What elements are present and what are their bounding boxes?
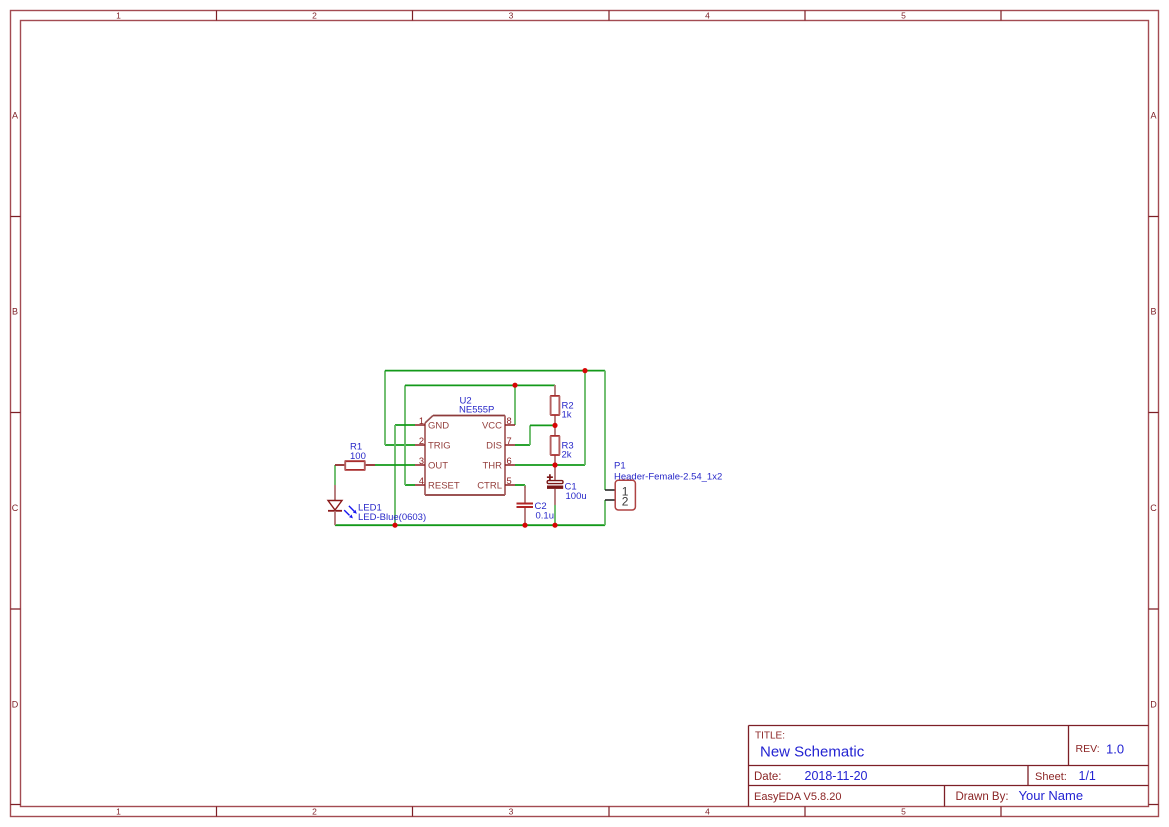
connector P1 Header-Female — [605, 460, 722, 510]
svg-text:C: C — [12, 503, 19, 513]
C2 bottom lead — [524, 508, 526, 525]
junction ground rail / GND pin — [392, 523, 397, 528]
junction VCC rail / VCC pin — [512, 383, 517, 388]
C2 bottom plate — [517, 506, 534, 508]
svg-text:TRIG: TRIG — [428, 441, 451, 452]
svg-text:1/1: 1/1 — [1079, 769, 1096, 783]
svg-text:3: 3 — [509, 11, 514, 21]
wire rail to P1 pin2 vertical — [604, 500, 606, 525]
svg-text:3: 3 — [509, 807, 514, 817]
svg-text:THR: THR — [482, 461, 502, 472]
frame row ticks left — [11, 217, 21, 805]
svg-text:Drawn By:: Drawn By: — [956, 791, 1009, 803]
junction R2 bottom / R3 top / DIS — [552, 423, 557, 428]
U2 body outline — [425, 416, 505, 496]
wire THR horizontal — [515, 464, 585, 466]
svg-text:2018-11-20: 2018-11-20 — [805, 769, 868, 783]
LED1 emission arrow 2 — [344, 510, 349, 515]
svg-text:D: D — [1150, 700, 1157, 710]
LED1 top lead — [334, 485, 336, 501]
frame row ticks right — [1149, 217, 1159, 805]
wire VCC rail horizontal — [405, 384, 555, 386]
C1 top lead — [554, 465, 556, 481]
wire RESET horizontal — [405, 484, 415, 486]
svg-text:Your Name: Your Name — [1019, 788, 1084, 803]
wire RESET riser vertical — [404, 385, 406, 485]
svg-text:D: D — [12, 700, 19, 710]
wire DIS horizontal — [515, 444, 530, 446]
LED1 emission arrow 1 — [349, 506, 354, 511]
P1 body — [615, 480, 635, 510]
svg-text:A: A — [1150, 111, 1156, 121]
op IC U2 NE555P — [415, 396, 515, 496]
R2 body — [551, 396, 559, 414]
wire TRIG horizontal — [385, 444, 415, 446]
frame column labels bottom — [116, 807, 906, 817]
junction ground rail / C1 bottom — [552, 523, 557, 528]
svg-text:Sheet:: Sheet: — [1035, 771, 1067, 783]
wire OUT to R1 horizontal — [375, 464, 415, 466]
svg-text:New Schematic: New Schematic — [760, 744, 865, 761]
svg-text:VCC: VCC — [482, 421, 502, 432]
C1 top plate — [547, 481, 563, 484]
svg-text:2: 2 — [419, 436, 424, 446]
svg-text:4: 4 — [705, 11, 710, 21]
svg-text:1.0: 1.0 — [1106, 742, 1124, 757]
svg-text:4: 4 — [705, 807, 710, 817]
resistor R1 — [335, 441, 375, 470]
svg-text:5: 5 — [901, 11, 906, 21]
svg-text:5: 5 — [901, 807, 906, 817]
R3 body — [551, 436, 559, 454]
svg-text:2: 2 — [312, 807, 317, 817]
wire ground rail horizontal — [335, 524, 605, 526]
svg-text:TITLE:: TITLE: — [755, 731, 785, 742]
junction top rail / THR branch — [582, 368, 587, 373]
svg-text:1: 1 — [116, 11, 121, 21]
svg-text:REV:: REV: — [1076, 743, 1100, 755]
capacitor C1 polarized — [547, 465, 587, 505]
title block grid lines — [749, 726, 1149, 807]
frame row labels left — [12, 111, 19, 710]
svg-text:6: 6 — [507, 456, 512, 466]
svg-text:B: B — [1150, 307, 1156, 317]
wire THR riser vertical — [584, 371, 586, 465]
junction ground rail / C2 bottom — [522, 523, 527, 528]
svg-text:2k: 2k — [562, 450, 572, 461]
svg-text:2: 2 — [312, 11, 317, 21]
wire CTRL to C2 vertical — [524, 485, 526, 488]
wire CTRL horizontal — [515, 484, 525, 486]
P1 pin stubs — [605, 490, 615, 500]
svg-text:5: 5 — [507, 476, 512, 486]
C1 plus sign — [547, 474, 553, 480]
frame column labels top — [116, 11, 906, 21]
R1 leads — [335, 464, 375, 466]
wire VCC pin drop vertical — [514, 385, 516, 425]
LED1 cathode bar — [328, 510, 342, 512]
wire R1 to LED1 vertical — [334, 465, 336, 485]
C1 bottom lead — [554, 489, 556, 505]
frame column ticks top — [217, 11, 1002, 21]
svg-text:EasyEDA V5.8.20: EasyEDA V5.8.20 — [754, 791, 841, 803]
R1 body — [345, 462, 364, 469]
wire C1 bottom to rail vertical — [554, 505, 556, 525]
U2 pin stubs right — [505, 425, 515, 485]
LED1 triangle — [328, 501, 342, 511]
U2 pin stubs left — [415, 425, 425, 485]
svg-text:B: B — [12, 307, 18, 317]
frame column ticks bottom — [217, 807, 1002, 817]
svg-text:0.1u: 0.1u — [536, 511, 555, 522]
svg-text:CTRL: CTRL — [477, 481, 502, 492]
capacitor C2 — [517, 486, 555, 525]
wire GND horizontal — [395, 424, 415, 426]
wire DIS riser vertical — [529, 425, 531, 445]
svg-text:LED-Blue(0603): LED-Blue(0603) — [358, 512, 426, 523]
C2 top lead — [524, 486, 526, 503]
svg-text:C: C — [1150, 503, 1157, 513]
svg-text:7: 7 — [507, 436, 512, 446]
svg-text:P1: P1 — [614, 460, 626, 471]
svg-text:Date:: Date: — [754, 771, 782, 783]
svg-text:100u: 100u — [566, 491, 587, 502]
svg-text:1: 1 — [116, 807, 121, 817]
R3 leads — [554, 425, 556, 465]
wire drop to P1 pin1 vertical — [604, 371, 606, 490]
svg-text:8: 8 — [507, 416, 512, 426]
frame row labels right — [1150, 111, 1157, 710]
wire GND drop vertical — [394, 425, 396, 525]
svg-text:1: 1 — [419, 416, 424, 426]
wire top rail horizontal — [385, 370, 605, 372]
svg-text:OUT: OUT — [428, 461, 448, 472]
LED1 bottom lead — [334, 511, 336, 525]
svg-text:100: 100 — [350, 451, 366, 462]
svg-text:NE555P: NE555P — [459, 405, 494, 416]
svg-text:A: A — [12, 111, 18, 121]
R2 leads — [554, 385, 556, 425]
resistor R2 — [550, 385, 573, 425]
svg-text:4: 4 — [419, 476, 424, 486]
junction R3 bottom / THR / C1 top — [552, 462, 557, 467]
svg-text:GND: GND — [428, 421, 449, 432]
svg-text:3: 3 — [419, 456, 424, 466]
svg-text:2: 2 — [622, 494, 629, 508]
svg-text:DIS: DIS — [486, 441, 502, 452]
svg-text:Header-Female-2.54_1x2: Header-Female-2.54_1x2 — [614, 472, 722, 483]
resistor R3 — [550, 425, 573, 465]
wire TRIG riser vertical — [384, 371, 386, 445]
LED LED1 — [328, 485, 426, 525]
C1 bottom plate — [547, 486, 563, 489]
svg-text:RESET: RESET — [428, 481, 460, 492]
C2 top plate — [517, 503, 534, 505]
svg-text:1k: 1k — [562, 410, 572, 421]
wire DIS to R2/R3 junction horizontal — [530, 424, 555, 426]
